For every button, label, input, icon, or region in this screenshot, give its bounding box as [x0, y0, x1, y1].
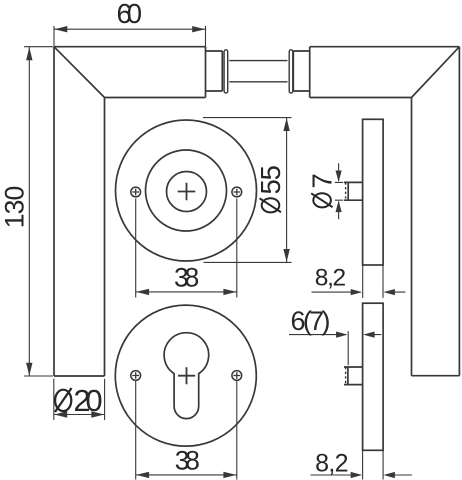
svg-text:38: 38	[175, 445, 200, 475]
svg-text:20: 20	[73, 383, 102, 418]
svg-text:7: 7	[307, 173, 338, 188]
svg-text:130: 130	[0, 186, 29, 229]
svg-text:55: 55	[255, 165, 286, 194]
svg-text:60: 60	[117, 0, 143, 29]
svg-text:38: 38	[174, 263, 199, 293]
svg-text:8,2: 8,2	[315, 264, 346, 291]
svg-text:8,2: 8,2	[315, 449, 348, 477]
svg-text:6(7): 6(7)	[291, 306, 331, 336]
